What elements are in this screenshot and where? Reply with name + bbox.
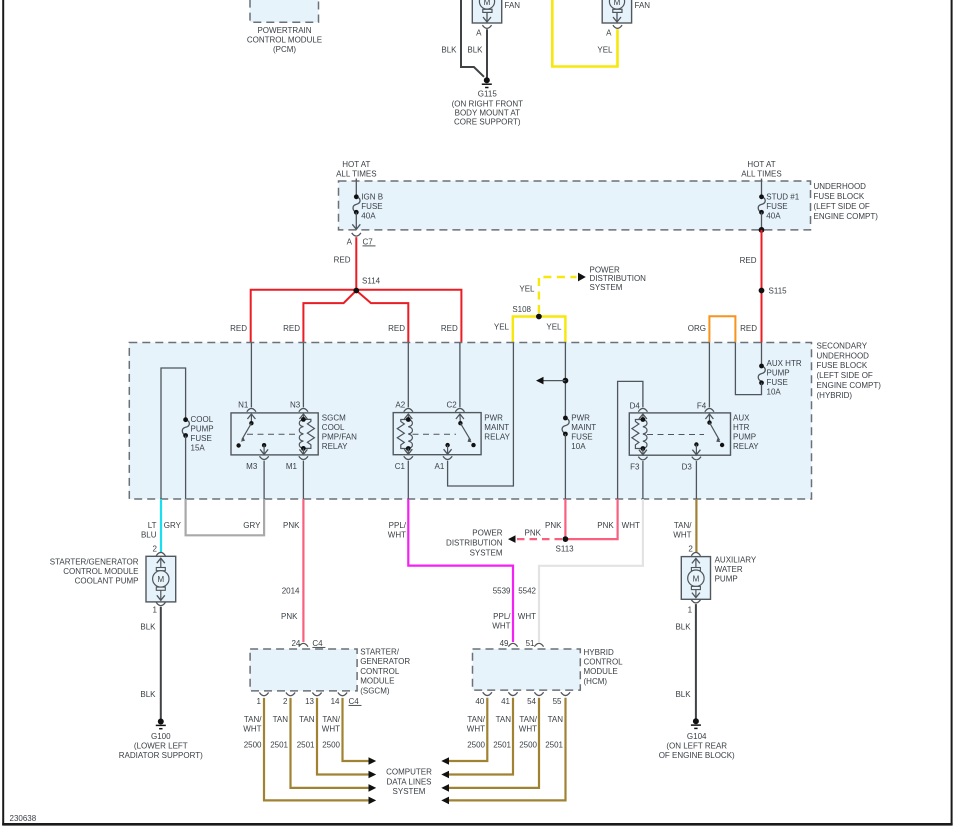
pin F4 connector bbox=[697, 402, 714, 412]
wire RED S114 outer branches to N1 and C2 bbox=[251, 290, 462, 343]
svg-text:MAINT: MAINT bbox=[571, 423, 596, 432]
label auxiliary water pump bbox=[715, 556, 757, 584]
svg-text:MODULE: MODULE bbox=[360, 677, 394, 686]
svg-text:SECONDARY: SECONDARY bbox=[817, 342, 868, 351]
svg-text:1: 1 bbox=[688, 606, 693, 615]
svg-text:C2: C2 bbox=[446, 401, 457, 410]
wire into relay pin N1 bbox=[250, 343, 252, 408]
fan motor M2 (right FAN), partial bbox=[602, 0, 650, 23]
svg-text:UNDERHOOD: UNDERHOOD bbox=[817, 351, 870, 360]
svg-text:2: 2 bbox=[688, 545, 693, 554]
fan motor M1 (left FAN), partial bbox=[472, 0, 520, 23]
svg-text:2501: 2501 bbox=[545, 741, 563, 750]
svg-text:TAN: TAN bbox=[299, 715, 315, 724]
border bottom bbox=[2, 823, 952, 826]
svg-text:DISTRIBUTION: DISTRIBUTION bbox=[446, 538, 503, 547]
svg-text:CONTROL MODULE: CONTROL MODULE bbox=[63, 567, 138, 576]
SGCM pin 2 connector bbox=[283, 693, 295, 706]
svg-text:WHT: WHT bbox=[388, 531, 406, 540]
connector C4 label (bottom) bbox=[349, 697, 362, 706]
feed label HOT AT ALL TIMES (left) bbox=[336, 160, 376, 179]
svg-text:N1: N1 bbox=[238, 401, 249, 410]
svg-text:HOT AT: HOT AT bbox=[342, 160, 370, 169]
svg-text:S114: S114 bbox=[362, 277, 381, 286]
svg-text:S108: S108 bbox=[512, 305, 531, 314]
svg-text:2500: 2500 bbox=[322, 741, 340, 750]
connector C7 pin A bbox=[347, 233, 376, 246]
wire BLK from pump pin 1 to G100 bbox=[160, 607, 162, 719]
svg-text:TAN/: TAN/ bbox=[467, 715, 485, 724]
svg-text:ENGINE COMPT): ENGINE COMPT) bbox=[817, 381, 882, 390]
svg-text:(ON LEFT REAR: (ON LEFT REAR bbox=[666, 742, 727, 751]
HCM pin 51 connector bbox=[526, 639, 544, 648]
wire TAN/WHT 2500 from HCM pin 40 to data lines bbox=[449, 698, 487, 761]
svg-text:CONTROL MODULE: CONTROL MODULE bbox=[247, 36, 322, 45]
svg-text:YEL: YEL bbox=[597, 46, 613, 55]
wire PPL/WHT circuit 5539 from relay C1 to HCM pin 49 bbox=[408, 499, 513, 642]
wire label PPL/WHT bbox=[388, 521, 407, 540]
svg-text:WHT: WHT bbox=[673, 531, 691, 540]
aux pump pin 1 connector bbox=[688, 600, 701, 615]
svg-text:WHT: WHT bbox=[322, 725, 340, 734]
svg-text:RED: RED bbox=[441, 324, 458, 333]
svg-text:WHT: WHT bbox=[519, 725, 537, 734]
svg-text:COMPUTER: COMPUTER bbox=[386, 768, 432, 777]
pin F3 connector bbox=[630, 457, 647, 472]
wire from red feed into AUX HTR PUMP FUSE bbox=[761, 343, 763, 367]
fan2 pin A connector bbox=[606, 25, 622, 37]
wire label LT BLU bbox=[141, 521, 157, 540]
svg-text:(LOWER LEFT: (LOWER LEFT bbox=[134, 742, 188, 751]
svg-text:BLK: BLK bbox=[140, 690, 156, 699]
svg-text:MAINT: MAINT bbox=[484, 423, 509, 432]
pin A1 connector bbox=[435, 456, 453, 471]
svg-text:G115: G115 bbox=[478, 90, 498, 99]
svg-text:RED: RED bbox=[388, 324, 405, 333]
svg-text:2501: 2501 bbox=[493, 741, 511, 750]
svg-text:2501: 2501 bbox=[270, 741, 288, 750]
svg-text:SYSTEM: SYSTEM bbox=[393, 787, 426, 796]
svg-text:TAN: TAN bbox=[496, 715, 512, 724]
wire YEL from fan2 pin A bbox=[552, 0, 617, 67]
svg-text:STARTER/GENERATOR: STARTER/GENERATOR bbox=[50, 558, 139, 567]
svg-text:(HYBRID): (HYBRID) bbox=[817, 391, 853, 400]
svg-text:FAN: FAN bbox=[635, 1, 651, 10]
svg-text:(LEFT SIDE OF: (LEFT SIDE OF bbox=[817, 371, 873, 380]
svg-text:TAN/: TAN/ bbox=[519, 715, 537, 724]
HCM pin 54 connector bbox=[527, 692, 544, 706]
svg-text:10A: 10A bbox=[767, 388, 782, 397]
relay K1 SGCM COOL PMP/FAN RELAY bbox=[231, 413, 318, 455]
svg-text:(ON RIGHT FRONT: (ON RIGHT FRONT bbox=[452, 99, 524, 108]
svg-text:55: 55 bbox=[553, 697, 562, 706]
wire from M1 to box edge bbox=[302, 461, 304, 499]
relay K3 AUX HTR PUMP RELAY bbox=[629, 413, 730, 455]
svg-text:C1: C1 bbox=[395, 462, 406, 471]
feed label HOT AT ALL TIMES (right) bbox=[741, 160, 781, 179]
svg-text:TAN: TAN bbox=[273, 715, 289, 724]
svg-text:CONTROL: CONTROL bbox=[584, 658, 624, 667]
svg-text:24: 24 bbox=[291, 639, 300, 648]
svg-text:SYSTEM: SYSTEM bbox=[470, 548, 503, 557]
svg-text:HYBRID: HYBRID bbox=[584, 648, 614, 657]
svg-text:D4: D4 bbox=[630, 402, 641, 411]
svg-text:PUMP: PUMP bbox=[733, 433, 756, 442]
svg-text:POWERTRAIN: POWERTRAIN bbox=[257, 26, 311, 35]
pin N1 connector bbox=[238, 401, 256, 412]
svg-text:FAN: FAN bbox=[505, 1, 521, 10]
svg-text:41: 41 bbox=[501, 697, 510, 706]
wire label PPL/WHT (lower) bbox=[492, 612, 511, 631]
svg-text:YEL: YEL bbox=[519, 285, 535, 294]
pin C1 connector bbox=[395, 456, 413, 471]
label HCM bbox=[584, 648, 624, 686]
label PWR MAINT RELAY bbox=[484, 414, 510, 442]
svg-text:RELAY: RELAY bbox=[733, 442, 759, 451]
svg-text:RED: RED bbox=[230, 324, 247, 333]
label starter/generator control module coolant pump bbox=[50, 558, 139, 586]
svg-text:2501: 2501 bbox=[297, 741, 315, 750]
pin D3 connector bbox=[682, 457, 701, 472]
label POWER DISTRIBUTION SYSTEM (S113 branch) bbox=[446, 529, 503, 558]
svg-text:ENGINE COMPT): ENGINE COMPT) bbox=[814, 212, 879, 221]
arrow from computer data lines system bbox=[441, 784, 449, 792]
pin D4 connector bbox=[630, 402, 648, 412]
wire from orange loop to relay pin F4 bbox=[708, 343, 710, 408]
svg-text:2500: 2500 bbox=[244, 741, 262, 750]
svg-text:1: 1 bbox=[153, 606, 158, 615]
wire labels TAN/WHT pin54 bbox=[519, 715, 538, 734]
svg-text:PWR: PWR bbox=[484, 414, 503, 423]
svg-text:ALL TIMES: ALL TIMES bbox=[336, 170, 376, 179]
wire from IGN B fuse to box edge with arrow bbox=[352, 212, 360, 229]
svg-text:(LEFT SIDE OF: (LEFT SIDE OF bbox=[814, 202, 870, 211]
svg-text:2: 2 bbox=[153, 545, 158, 554]
svg-text:IGN B: IGN B bbox=[361, 192, 383, 201]
wire from box edge to relay pin D4 bbox=[618, 381, 643, 499]
svg-text:TAN/: TAN/ bbox=[322, 715, 340, 724]
splice S115 bbox=[759, 287, 788, 296]
svg-text:M1: M1 bbox=[286, 462, 298, 471]
auxiliary water pump pin 2 connector bbox=[688, 545, 700, 556]
svg-text:RED: RED bbox=[740, 324, 757, 333]
svg-text:STUD #1: STUD #1 bbox=[766, 192, 799, 201]
svg-text:40A: 40A bbox=[766, 211, 781, 220]
label SGCM COOL PMP/FAN RELAY bbox=[322, 414, 357, 452]
wire PNK from PWR MAINT FUSE to S113 bbox=[564, 499, 566, 539]
starter pump pin 1 connector bbox=[153, 602, 166, 614]
svg-text:M: M bbox=[484, 0, 491, 7]
wire TAN/WHT 2500 from SGCM pin 14 to data lines bbox=[343, 698, 369, 761]
pin M1 connector bbox=[286, 456, 308, 471]
fuse F5 AUX HTR PUMP FUSE 10A bbox=[758, 359, 802, 397]
svg-text:PNK: PNK bbox=[525, 529, 542, 538]
motor M4 auxiliary water pump bbox=[681, 557, 710, 600]
svg-text:M3: M3 bbox=[246, 462, 258, 471]
svg-text:G100: G100 bbox=[151, 732, 171, 741]
label COMPUTER DATA LINES SYSTEM bbox=[386, 768, 432, 797]
HCM pin 55 connector bbox=[553, 692, 571, 706]
hybrid control module U3 (HCM) bbox=[473, 649, 581, 690]
svg-text:COOL: COOL bbox=[191, 415, 214, 424]
arrow from computer data lines system bbox=[441, 771, 449, 779]
svg-text:BLK: BLK bbox=[675, 623, 691, 632]
starter/generator control module U2 (SGCM) bbox=[250, 649, 357, 691]
svg-text:2500: 2500 bbox=[467, 741, 485, 750]
wire into relay pin A2 bbox=[407, 343, 409, 408]
svg-text:SYSTEM: SYSTEM bbox=[590, 283, 623, 292]
connector C4 pin 24 bbox=[291, 639, 325, 648]
pin C2 connector bbox=[446, 401, 464, 412]
svg-text:15A: 15A bbox=[191, 444, 206, 453]
ground G115 bbox=[452, 77, 524, 126]
arrow from computer data lines system bbox=[441, 757, 449, 765]
svg-text:MODULE: MODULE bbox=[584, 667, 618, 676]
svg-text:1: 1 bbox=[257, 697, 262, 706]
starter/generator coolant pump pin 2 connector bbox=[153, 545, 166, 556]
wire ORG loop outside secondary box bbox=[709, 316, 735, 342]
svg-text:FUSE BLOCK: FUSE BLOCK bbox=[817, 361, 868, 370]
svg-text:13: 13 bbox=[305, 697, 314, 706]
svg-text:HTR: HTR bbox=[733, 423, 750, 432]
wire PNK circuit 2014 from relay M1 to SGCM pin 24 bbox=[302, 499, 304, 642]
wire PNK dashed to power distribution system bbox=[517, 538, 562, 540]
svg-text:AUXILIARY: AUXILIARY bbox=[715, 556, 757, 565]
svg-text:FUSE: FUSE bbox=[191, 434, 212, 443]
svg-text:PUMP: PUMP bbox=[191, 425, 214, 434]
svg-text:PPL/: PPL/ bbox=[493, 612, 511, 621]
wire BLK from top to G115 bbox=[461, 0, 484, 77]
wire RED S114 inner branch to N3 bbox=[303, 291, 356, 343]
svg-text:C4: C4 bbox=[312, 639, 323, 648]
svg-text:STARTER/: STARTER/ bbox=[360, 648, 400, 657]
svg-text:54: 54 bbox=[527, 697, 536, 706]
wire RED from fuse block to S115 and secondary box bbox=[761, 230, 763, 343]
fan1 pin A connector bbox=[476, 25, 491, 37]
svg-text:A1: A1 bbox=[435, 462, 445, 471]
svg-text:GRY: GRY bbox=[243, 521, 261, 530]
label SGCM bbox=[360, 648, 410, 696]
HCM pin 49 connector bbox=[500, 639, 518, 648]
wire loop to COOL PUMP FUSE bbox=[161, 368, 186, 499]
svg-text:N3: N3 bbox=[290, 401, 301, 410]
border left bbox=[2, 0, 4, 825]
svg-text:WHT: WHT bbox=[467, 725, 485, 734]
svg-text:A: A bbox=[347, 237, 353, 246]
wire labels TAN/WHT pin14 bbox=[322, 715, 341, 734]
arrow to power distribution system bbox=[578, 273, 586, 282]
svg-text:RELAY: RELAY bbox=[484, 433, 510, 442]
arrow to computer data lines system bbox=[369, 757, 377, 765]
svg-text:A: A bbox=[476, 28, 482, 37]
wire from A1 loop to S108 leg bbox=[448, 343, 514, 487]
svg-text:230638: 230638 bbox=[10, 814, 37, 823]
pin A2 connector bbox=[395, 401, 412, 412]
svg-text:RELAY: RELAY bbox=[322, 442, 348, 451]
label POWER DISTRIBUTION SYSTEM (top) bbox=[590, 265, 647, 292]
motor M3 starter/generator control module coolant pump bbox=[146, 556, 176, 602]
wire from AUX HTR PUMP FUSE to orange loop bbox=[735, 343, 761, 395]
svg-text:WHT: WHT bbox=[492, 622, 510, 631]
wire TAN 2501 from SGCM pin 13 to data lines bbox=[317, 698, 369, 775]
border right bbox=[951, 0, 953, 825]
wire into relay pin C2 bbox=[459, 343, 461, 408]
fuse F4 PWR MAINT FUSE 10A bbox=[562, 414, 596, 452]
svg-text:FUSE: FUSE bbox=[767, 378, 788, 387]
wire labels TAN/WHT pin40 bbox=[467, 715, 486, 734]
svg-text:5539: 5539 bbox=[493, 587, 511, 596]
svg-text:PUMP: PUMP bbox=[767, 369, 790, 378]
svg-text:CORE SUPPORT): CORE SUPPORT) bbox=[454, 118, 521, 127]
wire WHT circuit 5542 from relay F3 to HCM pin 51 bbox=[539, 499, 643, 642]
svg-text:WATER: WATER bbox=[715, 565, 743, 574]
svg-text:FUSE BLOCK: FUSE BLOCK bbox=[814, 192, 865, 201]
svg-text:PNK: PNK bbox=[545, 521, 562, 530]
svg-text:PNK: PNK bbox=[283, 521, 300, 530]
wire from M3 to box edge bbox=[263, 461, 265, 499]
svg-text:2500: 2500 bbox=[519, 741, 537, 750]
fuse F1 IGN B FUSE 40A bbox=[353, 192, 383, 220]
svg-text:14: 14 bbox=[331, 697, 340, 706]
svg-text:BLK: BLK bbox=[467, 46, 483, 55]
svg-text:5542: 5542 bbox=[518, 587, 536, 596]
arrow to computer data lines system bbox=[369, 784, 377, 792]
wire LT BLU from fuse block to coolant pump pin 2 bbox=[160, 499, 162, 552]
svg-text:POWER: POWER bbox=[472, 529, 502, 538]
svg-text:G104: G104 bbox=[687, 732, 707, 741]
svg-text:FUSE: FUSE bbox=[766, 202, 787, 211]
SGCM pin 13 connector bbox=[305, 693, 322, 706]
splice S113 bbox=[556, 536, 575, 553]
svg-text:CONTROL: CONTROL bbox=[360, 667, 400, 676]
splice S114 bbox=[353, 277, 380, 294]
wire TAN/WHT from relay D3 to auxiliary water pump bbox=[695, 499, 697, 552]
wire from D3 to box edge bbox=[695, 461, 697, 499]
wire PNK from S113 to relay D4 bbox=[565, 499, 617, 539]
wire from C1 to box edge bbox=[407, 461, 409, 499]
svg-text:S113: S113 bbox=[556, 545, 575, 554]
svg-text:D3: D3 bbox=[682, 463, 693, 472]
svg-text:M: M bbox=[614, 0, 621, 7]
svg-text:TAN/: TAN/ bbox=[674, 521, 692, 530]
svg-text:S115: S115 bbox=[769, 287, 788, 296]
label underhood fuse block bbox=[814, 182, 879, 221]
arrow to computer data lines system bbox=[369, 771, 377, 779]
svg-text:PMP/FAN: PMP/FAN bbox=[322, 433, 357, 442]
splice S108 bbox=[512, 305, 541, 319]
svg-text:2: 2 bbox=[283, 697, 288, 706]
wire TAN/WHT 2500 from SGCM pin 1 to data lines bbox=[264, 698, 369, 801]
svg-text:OF ENGINE BLOCK): OF ENGINE BLOCK) bbox=[659, 751, 735, 760]
svg-text:GRY: GRY bbox=[164, 521, 182, 530]
wire RED from C7 to S114 bbox=[355, 237, 357, 290]
ground G104 bbox=[659, 718, 735, 760]
svg-text:WHT: WHT bbox=[622, 521, 640, 530]
svg-text:40: 40 bbox=[475, 697, 484, 706]
wire TAN 2501 from HCM pin 41 to data lines bbox=[449, 698, 513, 775]
svg-text:WHT: WHT bbox=[243, 725, 261, 734]
label AUX HTR PUMP RELAY bbox=[733, 414, 759, 452]
svg-text:M: M bbox=[693, 575, 700, 584]
wire into IGN B fuse bbox=[355, 179, 357, 197]
svg-text:BODY MOUNT AT: BODY MOUNT AT bbox=[455, 108, 520, 117]
svg-text:RED: RED bbox=[283, 324, 300, 333]
svg-text:F3: F3 bbox=[630, 463, 640, 472]
svg-text:(HCM): (HCM) bbox=[584, 677, 608, 686]
svg-text:M: M bbox=[157, 575, 164, 584]
svg-text:PPL/: PPL/ bbox=[389, 521, 407, 530]
wire BLK from aux pump pin 1 to G104 bbox=[695, 604, 697, 719]
arrow to power distribution system bbox=[508, 535, 516, 543]
svg-text:LT: LT bbox=[148, 521, 157, 530]
wire YEL dashed to power distribution system bbox=[539, 277, 577, 313]
svg-text:TAN/: TAN/ bbox=[244, 715, 262, 724]
wire TAN 2501 from HCM pin 55 to data lines bbox=[449, 698, 566, 801]
svg-text:ORG: ORG bbox=[688, 324, 706, 333]
svg-text:RADIATOR SUPPORT): RADIATOR SUPPORT) bbox=[119, 751, 203, 760]
pin N3 connector bbox=[290, 401, 308, 412]
relay K2 PWR MAINT RELAY bbox=[393, 413, 481, 455]
svg-text:BLU: BLU bbox=[141, 531, 157, 540]
svg-text:49: 49 bbox=[500, 639, 509, 648]
svg-text:WHT: WHT bbox=[518, 612, 536, 621]
wire from STUD #1 fuse to box edge junction bbox=[759, 212, 765, 233]
svg-text:UNDERHOOD: UNDERHOOD bbox=[814, 182, 867, 191]
wire label TAN/WHT bbox=[673, 521, 692, 540]
svg-text:AUX: AUX bbox=[733, 414, 750, 423]
svg-text:RED: RED bbox=[334, 256, 351, 265]
svg-text:AUX HTR: AUX HTR bbox=[767, 359, 802, 368]
svg-text:10A: 10A bbox=[571, 442, 586, 451]
svg-text:FUSE: FUSE bbox=[571, 433, 592, 442]
svg-text:HOT AT: HOT AT bbox=[747, 160, 775, 169]
wire labels TAN/WHT pin1 bbox=[243, 715, 262, 734]
wire GRY loop from COOL PUMP FUSE to relay M3 bbox=[186, 499, 265, 535]
wire into STUD #1 fuse bbox=[761, 179, 763, 197]
SGCM pin 14 connector bbox=[331, 693, 348, 706]
svg-text:SGCM: SGCM bbox=[322, 414, 346, 423]
wire from PWR MAINT FUSE to box edge bbox=[564, 434, 566, 499]
wire RED S114 inner branch to A2 bbox=[356, 291, 408, 343]
secondary underhood fuse block (hybrid) bbox=[129, 343, 811, 500]
svg-text:COOL: COOL bbox=[322, 423, 345, 432]
svg-text:PWR: PWR bbox=[571, 414, 590, 423]
wire from S108 right leg to PWR MAINT FUSE bbox=[564, 343, 566, 419]
svg-text:BLK: BLK bbox=[140, 623, 156, 632]
wire YEL from S108 down into secondary box bbox=[513, 317, 566, 343]
HCM pin 41 connector bbox=[501, 692, 518, 706]
svg-text:(SGCM): (SGCM) bbox=[360, 686, 390, 695]
svg-text:A: A bbox=[606, 28, 612, 37]
arrow to computer data lines system bbox=[369, 797, 377, 805]
svg-text:A2: A2 bbox=[395, 401, 405, 410]
svg-text:PNK: PNK bbox=[597, 521, 614, 530]
fuse F3 COOL PUMP FUSE 15A bbox=[182, 415, 213, 453]
svg-text:DATA LINES: DATA LINES bbox=[386, 777, 431, 786]
branch arrow junction bbox=[536, 377, 568, 385]
svg-text:RED: RED bbox=[740, 256, 757, 265]
wire TAN 2501 from SGCM pin 2 to data lines bbox=[291, 698, 369, 788]
pin M3 connector bbox=[246, 456, 269, 471]
svg-text:51: 51 bbox=[526, 639, 535, 648]
wire BLK from fan1 pin A to G115 bbox=[486, 29, 488, 77]
svg-text:FUSE: FUSE bbox=[361, 202, 382, 211]
SGCM pin 1 connector bbox=[257, 693, 269, 706]
svg-text:ALL TIMES: ALL TIMES bbox=[741, 170, 781, 179]
wire from F3 to box edge bbox=[642, 461, 644, 499]
HCM pin 40 connector bbox=[475, 692, 492, 706]
svg-text:(PCM): (PCM) bbox=[273, 45, 296, 54]
